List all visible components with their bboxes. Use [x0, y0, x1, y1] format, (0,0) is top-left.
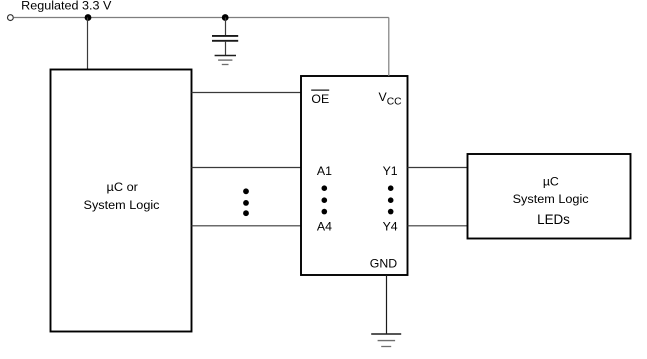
wire: Y4 output: [408, 225, 468, 227]
svg-text:System Logic: System Logic: [513, 192, 589, 206]
svg-text:µC: µC: [543, 175, 559, 189]
svg-text:OE: OE: [311, 92, 329, 106]
ground: bypass capacitor: [215, 56, 236, 65]
wire: VCC supply: [388, 18, 390, 77]
svg-text:GND: GND: [370, 257, 397, 271]
wire: Y1 output: [408, 167, 468, 169]
ellipsis: A input pins: [322, 185, 328, 214]
wire: rail down to system logic block: [87, 18, 89, 70]
wire: GND to ground: [386, 275, 388, 334]
svg-text:µC or: µC or: [107, 180, 138, 194]
wire: OE control: [192, 92, 302, 94]
block: µC / System Logic / LEDs: [468, 154, 631, 239]
svg-text:Y4: Y4: [383, 219, 398, 233]
svg-text:System Logic: System Logic: [84, 198, 160, 212]
ellipsis: A2..A3 wires: [243, 188, 249, 216]
buffer U1: [301, 76, 408, 275]
junction: rail to bypass capacitor: [222, 14, 229, 21]
svg-text:LEDs: LEDs: [537, 212, 570, 227]
ground: U1 GND: [371, 334, 401, 347]
terminal: 3.3V input: [7, 15, 13, 21]
capacitor C1 (bypass): [212, 36, 238, 41]
svg-text:A4: A4: [317, 219, 332, 233]
wire: rail down to capacitor: [225, 18, 227, 36]
overline of OE: [311, 89, 329, 91]
wire: 3.3V rail: [14, 17, 389, 19]
svg-text:A1: A1: [317, 164, 332, 178]
wire: A1 input: [192, 167, 302, 169]
svg-text:Y1: Y1: [383, 164, 398, 178]
junction: rail to system logic: [85, 14, 92, 21]
ellipsis: Y output pins: [388, 185, 394, 214]
wire: A4 input: [192, 225, 302, 227]
wire: capacitor to ground: [225, 42, 227, 55]
svg-text:Regulated 3.3 V: Regulated 3.3 V: [21, 0, 112, 13]
block: microcontroller / system logic: [51, 70, 192, 332]
